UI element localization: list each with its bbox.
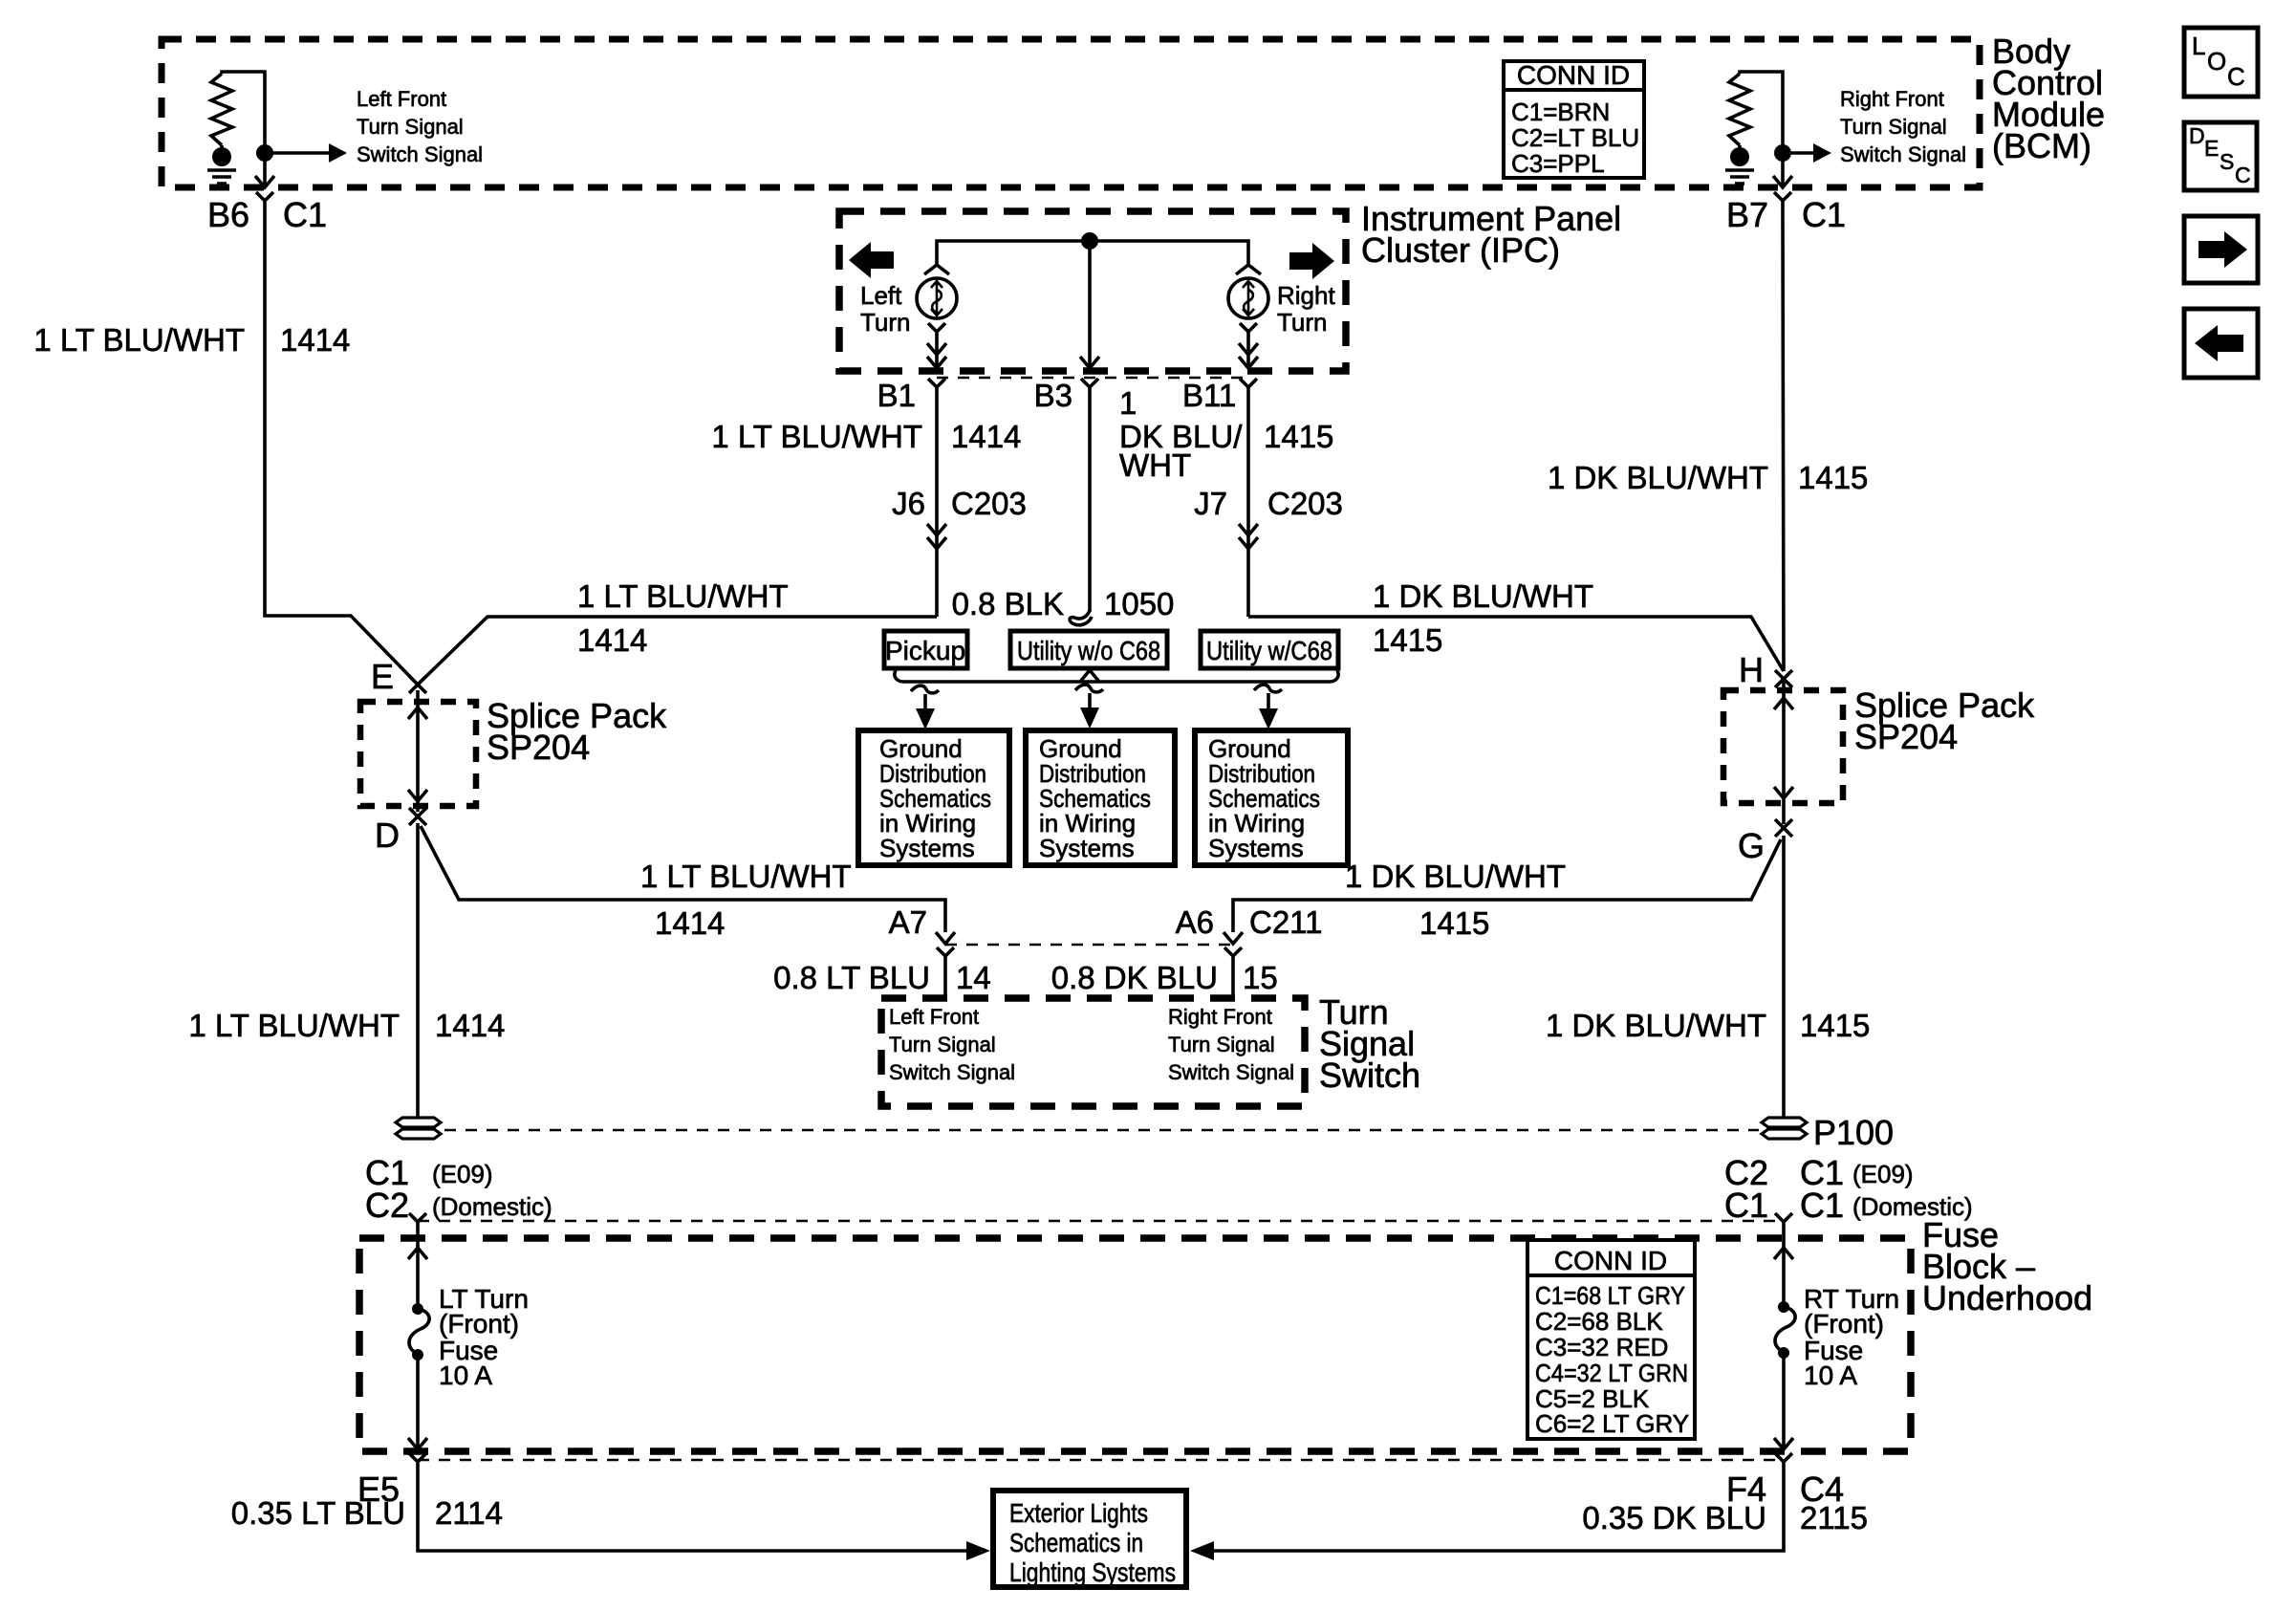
svg-text:Right Front: Right Front — [1168, 1005, 1272, 1029]
svg-text:15: 15 — [1243, 960, 1278, 995]
icon left-turn arrow (IPC) — [849, 242, 894, 278]
svg-text:C2=LT BLU: C2=LT BLU — [1511, 123, 1639, 152]
fuse LT Turn (Front) 10 A — [409, 1303, 429, 1361]
svg-text:B3: B3 — [1034, 378, 1072, 413]
wire left fuse out — [416, 1354, 420, 1449]
icon box LOC — [2184, 28, 2258, 97]
wire drop 1 curl — [911, 686, 939, 693]
svg-text:Utility w/C68: Utility w/C68 — [1206, 636, 1332, 665]
wire resistor to dot — [220, 145, 224, 153]
wire left fuse feed — [416, 1238, 420, 1308]
svg-text:1 LT BLU/WHT: 1 LT BLU/WHT — [33, 322, 245, 358]
svg-text:10 A: 10 A — [1804, 1361, 1857, 1390]
reference box Ground Distribution Schematics 1 — [858, 730, 1009, 865]
node H splice marker — [1775, 670, 1792, 687]
svg-text:G: G — [1738, 826, 1765, 865]
svg-text:A7: A7 — [889, 904, 927, 940]
label Turn Signal Switch — [1319, 992, 1420, 1095]
reference box Ground Distribution Schematics 2 — [1026, 730, 1175, 865]
Body Control Module (BCM) dashed enclosure — [162, 39, 1980, 187]
label Left Front Turn Signal Switch Signal (switch) — [889, 1005, 1015, 1084]
CONN ID table (BCM connectors) — [1504, 60, 1644, 178]
label Right Turn — [1277, 281, 1335, 337]
svg-text:B7: B7 — [1726, 195, 1768, 234]
svg-text:A6: A6 — [1176, 904, 1214, 940]
connector P100 grommet left — [396, 1118, 441, 1139]
svg-text:Right: Right — [1277, 281, 1335, 310]
svg-text:B6: B6 — [207, 195, 249, 234]
svg-text:Left Front: Left Front — [889, 1005, 979, 1029]
wire B1 vertical to bus — [935, 402, 939, 617]
svg-text:C3=32 RED: C3=32 RED — [1535, 1333, 1668, 1361]
label Right Front Turn Signal Switch Signal (switch) — [1168, 1005, 1294, 1084]
connector Y B7/C1 — [1774, 192, 1791, 214]
junction dot (left signal tap) — [256, 144, 273, 162]
connector Y left fuse block entry — [409, 1213, 426, 1238]
connector P100 grommet right — [1762, 1118, 1807, 1139]
svg-text:Right Front: Right Front — [1840, 87, 1944, 111]
junction dot (right resistor to ground) — [1730, 147, 1749, 166]
ground (BCM left) — [207, 170, 236, 184]
label box Utility w/C68 — [1201, 631, 1338, 668]
svg-text:Turn Signal: Turn Signal — [889, 1033, 996, 1056]
svg-text:C2=68 BLK: C2=68 BLK — [1535, 1307, 1663, 1336]
svg-text:0.8 BLK: 0.8 BLK — [952, 586, 1064, 621]
arrowhead 2115 — [1190, 1541, 1214, 1560]
reference box Ground Distribution Schematics 3 — [1195, 730, 1348, 865]
svg-text:2114: 2114 — [435, 1495, 503, 1531]
label RT Turn (Front) Fuse 10 A — [1804, 1284, 1899, 1390]
label Fuse Block - Underhood — [1922, 1215, 2092, 1317]
wire 1415 top bus (B11 to H) — [1248, 617, 1784, 671]
wire 2115 to exterior lights — [1213, 1477, 1784, 1551]
svg-text:SP204: SP204 — [487, 728, 590, 767]
svg-text:1414: 1414 — [951, 419, 1021, 454]
connector Y below left lamp — [928, 323, 945, 344]
arrow double chevron left lamp to B1 — [927, 343, 946, 368]
wire break curl (B3 end) — [1070, 610, 1092, 625]
arrow chevron down (left fuse out) — [408, 1438, 427, 1449]
svg-text:C203: C203 — [951, 486, 1027, 521]
wire left signal arrow — [265, 151, 330, 155]
svg-text:Systems: Systems — [879, 834, 975, 862]
svg-text:14: 14 — [956, 960, 991, 995]
icon box left-arrow — [2184, 309, 2258, 378]
node G splice marker — [1775, 819, 1792, 837]
arrow chevron down (left splice bottom) — [408, 790, 427, 801]
wire 1415 right vertical (B7 to H) — [1783, 214, 1784, 671]
svg-text:1415: 1415 — [1264, 419, 1333, 454]
svg-text:Switch: Switch — [1319, 1056, 1420, 1095]
svg-text:Turn: Turn — [860, 308, 911, 337]
svg-text:C1: C1 — [1800, 1186, 1844, 1225]
svg-text:Schematics in: Schematics in — [1009, 1528, 1143, 1557]
svg-text:Lighting Systems: Lighting Systems — [1009, 1557, 1176, 1587]
svg-text:Systems: Systems — [1208, 834, 1304, 862]
Fuse Block Underhood dashed enclosure — [359, 1238, 1911, 1451]
fuse RT Turn (Front) 10 A — [1775, 1301, 1795, 1359]
svg-text:Left: Left — [860, 281, 902, 310]
icon box DESC — [2184, 122, 2257, 190]
arrow chevron down (right splice bottom) — [1774, 787, 1793, 798]
reference box Exterior Lights Schematics — [993, 1491, 1186, 1587]
svg-text:0.8 LT BLU: 0.8 LT BLU — [773, 960, 930, 995]
label Left Turn — [860, 281, 911, 337]
svg-text:C: C — [2235, 163, 2251, 187]
svg-text:C: C — [2227, 62, 2245, 91]
arrowhead 2114 — [966, 1541, 990, 1560]
junction dot (right signal tap) — [1774, 144, 1791, 162]
svg-text:(E09): (E09) — [1852, 1160, 1914, 1188]
svg-text:C6=2 LT GRY: C6=2 LT GRY — [1535, 1409, 1689, 1438]
svg-text:C1: C1 — [283, 195, 327, 234]
svg-text:1: 1 — [1119, 385, 1137, 421]
svg-text:D: D — [375, 816, 400, 855]
label Left Front Turn Signal Switch Signal — [357, 87, 483, 166]
svg-text:S: S — [2220, 149, 2234, 174]
svg-text:E: E — [371, 657, 394, 696]
Splice Pack SP204 right dashed box — [1723, 690, 1843, 803]
arrow chevron middle at IPC edge — [1080, 357, 1099, 368]
connector Y right fuse block entry — [1775, 1213, 1792, 1238]
svg-text:1415: 1415 — [1419, 905, 1489, 941]
svg-text:0.35 DK BLU: 0.35 DK BLU — [1582, 1500, 1766, 1535]
resistor (BCM left pull-up coil) — [211, 74, 232, 145]
arrow chevron A7 — [936, 932, 955, 944]
connector Y below right lamp — [1240, 323, 1257, 344]
wire 1414 left vertical (B6 to E) — [265, 214, 418, 685]
arrow chevron into left lamp — [924, 265, 949, 274]
wire B3 vertical to splice break — [1088, 402, 1092, 612]
svg-text:1414: 1414 — [577, 622, 647, 658]
arrowhead right signal — [1813, 143, 1831, 163]
svg-text:B11: B11 — [1182, 378, 1236, 413]
svg-text:J7: J7 — [1194, 486, 1227, 521]
connector Y A6 — [1224, 947, 1242, 998]
wire option bus with curled ends — [895, 670, 1338, 682]
label Right Front Turn Signal Switch Signal — [1840, 87, 1966, 166]
wire right fuse feed — [1782, 1238, 1786, 1306]
IPC connector dashed line — [937, 377, 1248, 380]
svg-text:Turn: Turn — [1277, 308, 1328, 337]
arrow chevron up (left splice top) — [408, 708, 427, 719]
wire resistor top to B7 drop — [1740, 72, 1783, 143]
svg-text:1 LT BLU/WHT: 1 LT BLU/WHT — [711, 419, 922, 454]
connector Y B3 — [1081, 379, 1098, 402]
arrow chevron into right lamp — [1236, 265, 1261, 274]
svg-text:C203: C203 — [1267, 486, 1343, 521]
wire through left splice pack — [416, 690, 420, 812]
connector dashed line below fuse block — [418, 1459, 1784, 1462]
wire right fuse out — [1782, 1352, 1786, 1449]
wire resistor top to B6 drop — [222, 72, 265, 143]
node E splice marker — [409, 676, 426, 693]
svg-text:Cluster (IPC): Cluster (IPC) — [1361, 230, 1560, 270]
svg-text:(BCM): (BCM) — [1992, 126, 2091, 165]
label box Utility w/o C68 — [1010, 631, 1167, 668]
arrow chevron up (right fuse feed) — [1774, 1248, 1793, 1259]
svg-text:C1: C1 — [1802, 195, 1846, 234]
svg-text:CONN ID: CONN ID — [1517, 60, 1630, 90]
wire drop 2 curl — [1075, 685, 1103, 692]
svg-text:J6: J6 — [892, 486, 925, 521]
wire B7 exit (right BCM pin) — [1781, 143, 1785, 187]
svg-text:1414: 1414 — [435, 1008, 505, 1043]
connector Y B1 — [928, 379, 945, 402]
svg-text:Pickup: Pickup — [885, 636, 965, 665]
svg-text:WHT: WHT — [1119, 447, 1191, 483]
svg-text:H: H — [1739, 650, 1764, 689]
arrowhead drop 3 — [1259, 708, 1278, 729]
svg-text:Exterior Lights: Exterior Lights — [1009, 1498, 1148, 1528]
svg-text:1415: 1415 — [1800, 1008, 1870, 1043]
svg-text:1 LT BLU/WHT: 1 LT BLU/WHT — [640, 859, 852, 894]
svg-text:10 A: 10 A — [439, 1361, 492, 1390]
Splice Pack SP204 left dashed box — [360, 702, 476, 806]
arrow chevron A6 — [1224, 932, 1243, 944]
wire right signal arrow — [1783, 151, 1814, 155]
svg-text:Switch Signal: Switch Signal — [1840, 142, 1966, 166]
wire 1414 lower bus (D to A7) — [421, 826, 945, 932]
svg-text:C4=32 LT GRN: C4=32 LT GRN — [1535, 1359, 1688, 1387]
svg-text:D: D — [2189, 123, 2205, 148]
svg-text:0.8 DK BLU: 0.8 DK BLU — [1051, 960, 1218, 995]
wire IPC top bus — [937, 241, 1248, 264]
wire D vertical to P100 — [416, 823, 420, 1118]
junction dot (resistor to ground) — [212, 147, 231, 166]
connector Y B6/C1 — [256, 192, 273, 214]
icon box right-arrow — [2184, 216, 2258, 283]
Turn Signal Switch dashed enclosure — [881, 998, 1305, 1106]
junction dot (IPC bus to B3) — [1081, 232, 1098, 250]
svg-text:1414: 1414 — [655, 905, 725, 941]
svg-text:B1: B1 — [877, 378, 916, 413]
resistor (BCM right pull-up coil) — [1729, 74, 1750, 145]
arrow chevron up (utility w/o C68 tap) — [1080, 670, 1099, 682]
wire drop 1 — [923, 694, 927, 709]
wire G vertical to P100 — [1782, 836, 1786, 1118]
connector Y E5 — [409, 1453, 426, 1477]
wire drop 3 — [1267, 693, 1270, 709]
svg-text:Underhood: Underhood — [1922, 1278, 2092, 1317]
svg-text:Left Front: Left Front — [357, 87, 446, 111]
wire 1414 top bus (E to B1) — [418, 617, 937, 685]
svg-text:(Front): (Front) — [1804, 1309, 1884, 1339]
arrowhead drop 1 — [916, 708, 935, 729]
connector Y A7 — [937, 947, 954, 998]
svg-text:Turn Signal: Turn Signal — [357, 115, 464, 139]
wire B6 exit (left BCM pin) — [263, 143, 267, 187]
svg-text:1050: 1050 — [1104, 586, 1174, 621]
svg-text:C211: C211 — [1249, 904, 1322, 940]
label box Pickup — [884, 631, 967, 668]
svg-text:SP204: SP204 — [1854, 717, 1958, 756]
svg-text:1 LT BLU/WHT: 1 LT BLU/WHT — [577, 578, 789, 614]
node D splice marker — [409, 808, 426, 825]
arrowhead left signal — [329, 143, 347, 163]
svg-text:C2: C2 — [365, 1186, 409, 1225]
svg-text:C1=68 LT GRY: C1=68 LT GRY — [1535, 1281, 1685, 1310]
svg-text:C1: C1 — [1724, 1186, 1768, 1225]
svg-text:O: O — [2207, 47, 2226, 76]
wire right resistor to dot — [1738, 145, 1742, 153]
arrow chevron down at BCM edge right — [1773, 176, 1792, 187]
connector dashed line above fuse block — [418, 1220, 1784, 1223]
arrow chevron up (left fuse feed) — [408, 1248, 427, 1259]
label LT Turn (Front) Fuse 10 A — [439, 1284, 529, 1390]
arrow double chevron C203 right — [1239, 524, 1258, 549]
CONN ID table (fuse block) — [1527, 1240, 1695, 1439]
arrow chevron up (right splice top) — [1774, 698, 1793, 709]
svg-text:Switch Signal: Switch Signal — [357, 142, 483, 166]
svg-text:(Domestic): (Domestic) — [432, 1192, 552, 1221]
svg-text:Utility w/o C68: Utility w/o C68 — [1017, 636, 1160, 665]
arrow chevron down at BCM edge left — [255, 176, 274, 187]
arrowhead drop 2 — [1080, 708, 1099, 729]
svg-text:1414: 1414 — [280, 322, 350, 358]
wire drop 3 curl — [1254, 685, 1282, 692]
svg-text:CONN ID: CONN ID — [1554, 1246, 1667, 1275]
svg-text:Switch Signal: Switch Signal — [889, 1060, 1015, 1084]
connector Y B11 — [1240, 379, 1257, 402]
svg-text:1 DK BLU/WHT: 1 DK BLU/WHT — [1345, 859, 1566, 894]
wire 1415 lower bus (G to A6) — [1233, 839, 1781, 932]
svg-text:Turn Signal: Turn Signal — [1168, 1033, 1275, 1056]
svg-text:L: L — [2192, 32, 2205, 60]
svg-text:1 DK BLU/WHT: 1 DK BLU/WHT — [1373, 578, 1593, 614]
lamp left turn indicator — [917, 278, 957, 318]
icon right-turn arrow (IPC) — [1289, 243, 1334, 279]
wire middle B3 inside IPC — [1088, 241, 1092, 368]
wire through right splice pack — [1782, 679, 1786, 824]
lamp right turn indicator — [1228, 278, 1268, 318]
svg-text:0.35 LT BLU: 0.35 LT BLU — [231, 1495, 405, 1531]
connector Y F4 — [1775, 1453, 1792, 1477]
svg-text:2115: 2115 — [1800, 1500, 1868, 1535]
svg-text:P100: P100 — [1813, 1113, 1894, 1152]
svg-text:1 LT BLU/WHT: 1 LT BLU/WHT — [188, 1008, 400, 1043]
svg-text:E: E — [2204, 136, 2219, 161]
svg-text:1415: 1415 — [1373, 622, 1442, 658]
wire B11 vertical to bus — [1246, 402, 1250, 617]
connector C211 dashed line — [945, 944, 1233, 947]
svg-text:Systems: Systems — [1039, 834, 1135, 862]
arrow double chevron right lamp to B11 — [1239, 343, 1258, 368]
arrow double chevron C203 left — [927, 524, 946, 549]
svg-text:(Front): (Front) — [439, 1309, 519, 1339]
svg-text:Switch Signal: Switch Signal — [1168, 1060, 1294, 1084]
svg-text:1 DK BLU/WHT: 1 DK BLU/WHT — [1548, 460, 1768, 495]
wire 2114 to exterior lights — [418, 1477, 967, 1551]
Instrument Panel Cluster (IPC) dashed enclosure — [839, 211, 1346, 371]
wire drop 2 — [1088, 693, 1092, 708]
svg-text:1 DK BLU/WHT: 1 DK BLU/WHT — [1546, 1008, 1766, 1043]
svg-text:Turn Signal: Turn Signal — [1840, 115, 1947, 139]
ground (BCM right) — [1725, 170, 1754, 184]
svg-text:(E09): (E09) — [432, 1160, 493, 1188]
connector P100 dashed line — [444, 1129, 1759, 1132]
svg-text:C3=PPL: C3=PPL — [1511, 149, 1605, 178]
arrow chevron down (right fuse out) — [1774, 1438, 1793, 1449]
svg-text:1415: 1415 — [1798, 460, 1868, 495]
svg-text:C1=BRN: C1=BRN — [1511, 98, 1610, 126]
